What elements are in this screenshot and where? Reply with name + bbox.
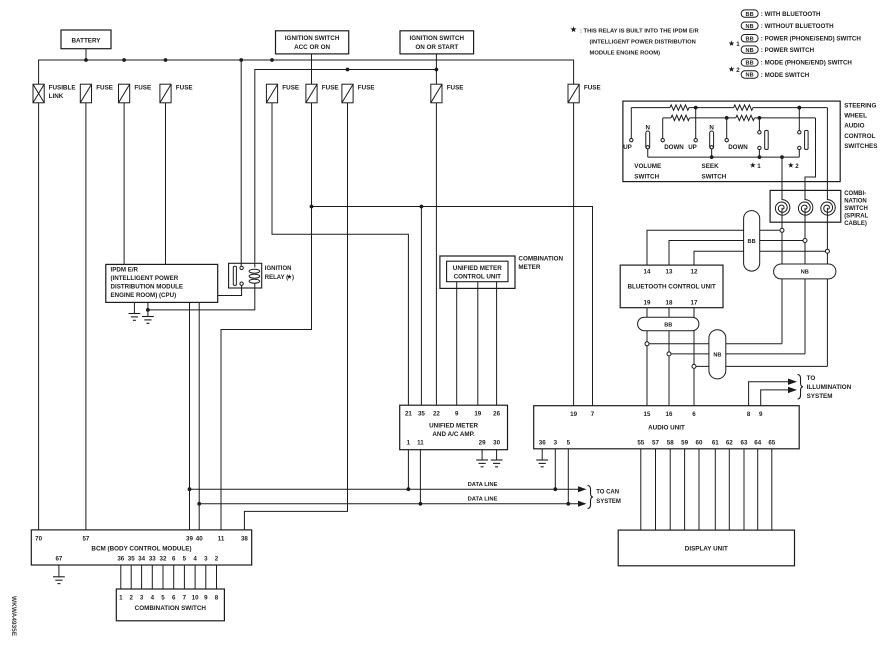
wire relay output to IPDM [218, 285, 242, 295]
legend row BB POWER (PHONE/SEND) SWITCH [741, 35, 758, 42]
wire meter pin30 ground [496, 450, 498, 460]
wire resistor line 1 [631, 107, 670, 109]
ground IPDM 2 [142, 316, 154, 318]
svg-text:58: 58 [667, 439, 674, 446]
svg-text:N: N [646, 124, 651, 131]
svg-text:38: 38 [241, 535, 248, 542]
svg-text:VOLUME: VOLUME [634, 163, 661, 170]
wire meter control to pin9 [456, 282, 458, 406]
svg-text:6: 6 [172, 594, 176, 601]
svg-text:ACC OR ON: ACC OR ON [294, 44, 330, 51]
relay contact top [240, 266, 243, 269]
svg-text:DISPLAY UNIT: DISPLAY UNIT [685, 546, 728, 553]
relay switch bar [233, 266, 236, 285]
star1 switch bar [765, 130, 769, 149]
wire bluetooth pin18 to audio pin16 [668, 308, 670, 406]
svg-text:ENGINE ROOM) (CPU): ENGINE ROOM) (CPU) [111, 292, 177, 299]
ground meter pin30 [491, 459, 503, 461]
svg-text:9: 9 [204, 594, 208, 601]
wire bluetooth pin14 [647, 230, 780, 265]
wires audio unit to display unit [640, 449, 642, 530]
junction data A meter1 [407, 487, 411, 491]
wire fuse7 to BCM pin38 [244, 103, 347, 530]
IPDM E/R box [106, 264, 218, 302]
spiral cable coil 2 [798, 200, 813, 216]
wire volume up drop [630, 108, 632, 139]
svg-text:3: 3 [140, 594, 144, 601]
svg-text:3: 3 [554, 439, 558, 446]
wire spiral2 down [804, 208, 806, 354]
arrow illumination 2 [788, 387, 797, 393]
fuse F3 [119, 84, 130, 103]
wire IPDM ground 2 [147, 302, 149, 316]
wire fuse6 to BCM pin11 [221, 103, 312, 530]
arrow data line A [578, 486, 587, 492]
junction rail star1 [758, 155, 762, 159]
junction rail spiral1 [780, 155, 784, 159]
legend row NB POWER SWITCH [741, 46, 758, 53]
svg-text:FUSE: FUSE [282, 85, 299, 92]
star2 switch upper contact [798, 108, 800, 131]
legend row NB WITHOUT BLUETOOTH [741, 22, 758, 29]
label star1 [750, 162, 756, 167]
connector circle spiral1/BB [780, 228, 784, 232]
junction data B meter11 [419, 502, 423, 506]
wire volume down drop [662, 118, 664, 139]
svg-text:19: 19 [474, 411, 481, 418]
svg-text:: POWER (PHONE/SEND) SWITCH: : POWER (PHONE/SEND) SWITCH [761, 36, 862, 43]
svg-text:12: 12 [691, 269, 698, 276]
svg-text:61: 61 [712, 439, 719, 446]
svg-text:35: 35 [128, 555, 135, 562]
wire relay contact feed [240, 60, 242, 266]
svg-text:1: 1 [119, 594, 123, 601]
connector circle NB spiral3 [692, 364, 696, 368]
junction fuse6 branch [310, 205, 314, 209]
svg-text:4: 4 [151, 594, 155, 601]
svg-text:19: 19 [644, 299, 651, 306]
svg-text:NATION: NATION [844, 198, 867, 204]
connector circle spiral3/BB [825, 249, 829, 253]
ignition relay box [229, 263, 262, 288]
wire fuse3 to IPDM [123, 103, 125, 265]
fuse F5 [266, 84, 277, 103]
svg-text:16: 16 [666, 411, 673, 418]
svg-text:FUSE: FUSE [584, 85, 601, 92]
fuse F8 [431, 84, 442, 103]
connector circle NB spiral1 [645, 342, 649, 346]
legend row BB WITH BLUETOOTH [741, 10, 758, 17]
display unit box [618, 530, 794, 566]
relay coil [254, 263, 256, 267]
svg-text:9: 9 [759, 411, 763, 418]
svg-text:BB: BB [746, 12, 754, 18]
wire meter pin29 ground [481, 450, 483, 460]
svg-text:DOWN: DOWN [728, 144, 748, 151]
svg-text:15: 15 [644, 411, 651, 418]
BB pill vertical [744, 211, 760, 272]
junction data A bcm39 [188, 487, 192, 491]
junction data A audio3 [553, 487, 557, 491]
svg-text:7: 7 [591, 411, 595, 418]
connector circle NB spiral2 [667, 352, 671, 356]
wire rail to spiral1 [781, 157, 783, 200]
svg-text:FUSE: FUSE [176, 85, 193, 92]
svg-text:65: 65 [768, 439, 775, 446]
svg-text:IPDM E/R: IPDM E/R [111, 267, 139, 274]
audio unit box [534, 406, 800, 449]
svg-text:IGNITION SWITCH: IGNITION SWITCH [285, 35, 340, 42]
legend star 2 marker [729, 66, 735, 71]
combination meter outer box [440, 256, 515, 288]
svg-text:60: 60 [696, 439, 703, 446]
svg-text:BB: BB [664, 322, 672, 328]
wire bluetooth pin13 [669, 241, 803, 266]
svg-text:10: 10 [192, 594, 199, 601]
svg-text:MODULE ENGINE ROOM): MODULE ENGINE ROOM) [590, 51, 661, 57]
svg-text:55: 55 [637, 439, 644, 446]
combination switch box [116, 589, 224, 621]
unified meter and A/C amp box [400, 405, 508, 450]
wires BCM to combination switch [120, 565, 122, 589]
svg-text:SWITCHES: SWITCHES [844, 143, 877, 150]
svg-text:COMBINATION: COMBINATION [518, 256, 563, 263]
svg-text:59: 59 [681, 439, 688, 446]
wire seek up drop [695, 108, 697, 139]
svg-text:CONTROL UNIT: CONTROL UNIT [454, 274, 502, 281]
svg-text:14: 14 [644, 269, 651, 276]
wire fusible link to BCM pin70 [38, 103, 40, 530]
contact volume UP [630, 139, 633, 142]
BCM body control module box [31, 530, 251, 565]
resistor R2 [734, 105, 753, 110]
NB pill vertical [709, 330, 726, 379]
svg-text:NB: NB [746, 73, 754, 79]
wire seek switch to rail [711, 149, 713, 157]
fuse F7 [342, 84, 353, 103]
svg-text:40: 40 [196, 535, 203, 542]
svg-text:FUSE: FUSE [134, 85, 151, 92]
svg-text:SYSTEM: SYSTEM [596, 499, 621, 505]
junction seek down tap [725, 116, 729, 120]
svg-text:FUSE: FUSE [96, 85, 113, 92]
svg-text:7: 7 [183, 594, 187, 601]
svg-text:30: 30 [493, 440, 500, 447]
spiral cable coil 1 [775, 200, 790, 216]
svg-text:UP: UP [688, 144, 697, 151]
contact seek DOWN [725, 139, 728, 142]
junction line1 star2 [797, 106, 801, 110]
brace to CAN system [588, 486, 594, 509]
unified meter control unit box [447, 261, 508, 282]
svg-text:2: 2 [215, 555, 219, 562]
svg-text:11: 11 [218, 535, 225, 542]
contact seek UP [694, 139, 697, 142]
wire audio pin3 to data line A [554, 449, 556, 489]
wire bluetooth pin17 to audio pin6 [693, 308, 695, 406]
svg-text:FUSE: FUSE [322, 85, 339, 92]
svg-text:: WITH BLUETOOTH: : WITH BLUETOOTH [761, 11, 821, 18]
svg-text:4: 4 [193, 555, 197, 562]
svg-text:FUSE: FUSE [358, 85, 375, 92]
svg-text:5: 5 [567, 439, 571, 446]
junction battery bus relay feed [239, 58, 243, 62]
svg-text:70: 70 [35, 535, 42, 542]
star1 switch lower contact [758, 146, 761, 149]
wire spiral1 joins audio15 [649, 343, 782, 345]
svg-text:CABLE): CABLE) [844, 221, 867, 227]
junction battery bus fuse4 [164, 58, 168, 62]
svg-text:DATA LINE: DATA LINE [468, 482, 498, 488]
svg-text:FUSIBLE: FUSIBLE [49, 85, 76, 92]
svg-text:METER: METER [518, 264, 540, 271]
junction data B bcm40 [197, 502, 201, 506]
svg-text:: POWER SWITCH: : POWER SWITCH [761, 47, 815, 54]
svg-text:36: 36 [539, 439, 546, 446]
svg-text:COMBI-: COMBI- [844, 191, 866, 197]
svg-text:32: 32 [160, 555, 167, 562]
junction ON/START bus fuse7 [346, 68, 350, 72]
svg-text:2: 2 [795, 163, 799, 170]
svg-text:21: 21 [405, 411, 412, 418]
battery B1 [61, 30, 111, 49]
wire branch down to meter pin35 [420, 207, 422, 406]
legend row NB MODE SWITCH [741, 71, 758, 78]
svg-text:63: 63 [741, 439, 748, 446]
svg-text:36: 36 [117, 555, 124, 562]
junction branch meter pin35 [420, 205, 424, 209]
junction ON/START bus at switch [435, 68, 439, 72]
svg-text:BCM (BODY CONTROL MODULE): BCM (BODY CONTROL MODULE) [91, 546, 191, 553]
svg-text:1: 1 [757, 163, 761, 170]
wire data line B [199, 503, 578, 505]
svg-text:AUDIO: AUDIO [844, 123, 864, 130]
wire meter control to pin19 [477, 282, 479, 406]
svg-text:ILLUMINATION: ILLUMINATION [807, 384, 852, 391]
wire ON/START switch down [435, 54, 437, 84]
svg-text:FUSE: FUSE [447, 85, 464, 92]
svg-text:1: 1 [736, 41, 740, 48]
svg-text:TO: TO [807, 375, 816, 382]
wire fuse8 to meter pin22 [435, 103, 437, 405]
wire meter control to pin26 [496, 282, 498, 406]
svg-text:67: 67 [55, 555, 62, 562]
svg-text:SYSTEM: SYSTEM [807, 393, 833, 400]
ground BCM pin67 [53, 576, 65, 578]
svg-text:: MODE SWITCH: : MODE SWITCH [761, 72, 810, 79]
svg-text:COMBINATION SWITCH: COMBINATION SWITCH [135, 605, 207, 612]
resistor R4 [736, 115, 755, 120]
wire fuse2 to BCM pin57 [85, 103, 87, 530]
svg-text:22: 22 [433, 411, 440, 418]
svg-text:IGNITION: IGNITION [265, 266, 292, 272]
wire audio pin8 to illumination [749, 382, 788, 406]
ignition switch ON OR START box [400, 31, 474, 54]
svg-text:62: 62 [726, 439, 733, 446]
wire meter pin11 to data line B [419, 450, 421, 504]
wire seek down drop [726, 118, 728, 139]
wire bluetooth pin19 to audio pin15 [646, 308, 648, 406]
svg-text:: THIS RELAY IS BUILT INTO THE: : THIS RELAY IS BUILT INTO THE IPDM E/R [580, 28, 699, 34]
svg-text:RELAY (: RELAY ( [265, 275, 288, 281]
svg-text:57: 57 [82, 535, 89, 542]
svg-text:9: 9 [455, 411, 459, 418]
svg-text:6: 6 [692, 411, 696, 418]
wire spiral3 down [826, 208, 828, 367]
svg-text:64: 64 [754, 439, 761, 446]
combination switch spiral cable box [770, 190, 841, 222]
svg-text:DISTRIBUTION MODULE: DISTRIBUTION MODULE [111, 284, 184, 291]
connector circle spiral2/BB [803, 239, 807, 243]
svg-text:SWITCH: SWITCH [702, 173, 727, 180]
svg-text:N: N [709, 124, 714, 131]
wire data line A [190, 488, 579, 490]
star1 switch upper contact [758, 118, 760, 131]
label star2 [788, 162, 794, 167]
svg-text:57: 57 [652, 439, 659, 446]
BB pill horizontal lower [638, 317, 699, 331]
svg-text:WKWA4935E: WKWA4935E [10, 596, 17, 637]
svg-text:SWITCH: SWITCH [634, 173, 659, 180]
star2 switch lower contact [798, 146, 801, 149]
svg-text:AND A/C AMP.: AND A/C AMP. [432, 431, 475, 438]
fuse F2 [80, 84, 91, 103]
wire IPDM to BCM pin40 [198, 302, 200, 530]
steering wheel audio control switches box [623, 101, 840, 182]
svg-text:TO CAN: TO CAN [596, 490, 619, 496]
svg-text:29: 29 [479, 440, 486, 447]
wire ON/START branch bus [255, 70, 437, 263]
svg-text:AUDIO UNIT: AUDIO UNIT [648, 425, 685, 432]
svg-text:IGNITION SWITCH: IGNITION SWITCH [410, 35, 465, 42]
svg-text:SEEK: SEEK [702, 163, 720, 170]
svg-text:6: 6 [172, 555, 176, 562]
svg-text:5: 5 [161, 594, 165, 601]
svg-text:3: 3 [204, 555, 208, 562]
wire ACC branch to meter35 and audio7 [312, 207, 593, 406]
svg-text:5: 5 [183, 555, 187, 562]
svg-text:NB: NB [801, 270, 809, 276]
ground IPDM 1 [129, 313, 141, 315]
svg-text:: MODE (PHONE/END) SWITCH: : MODE (PHONE/END) SWITCH [761, 60, 853, 67]
spiral cable coil 3 [821, 200, 836, 216]
svg-text:WHEEL: WHEEL [844, 113, 867, 120]
fuse F9 [568, 84, 579, 103]
ground meter pin29 [476, 459, 488, 461]
wire resistor line 2 [663, 117, 671, 119]
contact volume DOWN [661, 139, 664, 142]
wire audio pin36 ground [541, 449, 543, 460]
arrow data line B [578, 501, 587, 507]
svg-text:35: 35 [418, 411, 425, 418]
arrow illumination 1 [788, 379, 797, 385]
svg-text:: WITHOUT BLUETOOTH: : WITHOUT BLUETOOTH [761, 23, 834, 30]
svg-text:(SPIRAL: (SPIRAL [844, 214, 868, 220]
seek switch N capsule [710, 131, 714, 149]
wire line1 to spiral3 [826, 108, 828, 200]
wire IPDM ground 1 [133, 302, 135, 313]
junction battery bus fuse5 [270, 58, 274, 62]
wire spiral1 down [781, 208, 783, 344]
fuse F6 [306, 84, 317, 103]
svg-text:NB: NB [746, 48, 754, 54]
junction rail seek [710, 155, 714, 159]
svg-text:ON OR START: ON OR START [415, 44, 458, 51]
svg-text:2: 2 [129, 594, 133, 601]
svg-text:BB: BB [748, 239, 756, 245]
svg-text:UNIFIED METER: UNIFIED METER [429, 422, 478, 429]
svg-text:UP: UP [623, 144, 632, 151]
svg-text:DOWN: DOWN [664, 144, 684, 151]
wire ACC switch to fuse6 [311, 54, 313, 84]
svg-text:SWITCH: SWITCH [844, 206, 868, 212]
junction seek up tap [694, 106, 698, 110]
fuse F4 [160, 84, 171, 103]
volume switch N capsule [646, 131, 650, 149]
resistor R1 [670, 105, 689, 110]
wire battery to bus [85, 49, 87, 60]
wire bluetooth pin12 [694, 251, 825, 265]
bluetooth control unit box [620, 265, 723, 308]
brace illumination [798, 375, 804, 400]
svg-text:CONTROL: CONTROL [844, 133, 875, 140]
svg-text:39: 39 [186, 535, 193, 542]
svg-text:2: 2 [736, 67, 740, 74]
ignition switch ACC OR ON box [276, 31, 349, 54]
svg-text:11: 11 [417, 440, 424, 447]
star2 switch bar [805, 130, 809, 149]
wire line2 to spiral2 [805, 118, 816, 200]
svg-text:34: 34 [138, 555, 145, 562]
wire BCM pin67 ground [58, 565, 60, 577]
wire audio pin9 to illumination [761, 390, 788, 406]
svg-text:17: 17 [691, 299, 698, 306]
svg-text:8: 8 [215, 594, 219, 601]
svg-text:19: 19 [570, 411, 577, 418]
wire fuse4 to IPDM [165, 103, 167, 265]
svg-text:(INTELLIGENT POWER DISTRIBUTIO: (INTELLIGENT POWER DISTRIBUTION [590, 39, 696, 45]
wire IPDM to BCM pin39 [189, 302, 191, 530]
legend row BB MODE (PHONE/END) SWITCH [741, 59, 758, 66]
wire volume switch to rail [647, 149, 649, 157]
junction data B audio5 [566, 502, 570, 506]
svg-text:): ) [292, 275, 294, 281]
wire switch common rail [648, 156, 800, 158]
svg-text:LINK: LINK [49, 93, 64, 100]
svg-text:26: 26 [493, 411, 500, 418]
svg-text:NB: NB [746, 24, 754, 30]
svg-text:18: 18 [666, 299, 673, 306]
resistor R3 [671, 115, 690, 120]
svg-text:13: 13 [666, 269, 673, 276]
junction relay coil ground [146, 308, 150, 312]
svg-text:UNIFIED METER: UNIFIED METER [453, 265, 502, 272]
svg-text:BB: BB [746, 61, 754, 67]
relay contact bottom [240, 282, 243, 285]
legend star 1 marker [729, 41, 735, 46]
wire main battery bus [39, 60, 574, 84]
note star relay [570, 26, 576, 32]
NB pill horizontal upper [774, 264, 836, 279]
wire fuse9 to audio pin19 [573, 103, 575, 406]
svg-text:NB: NB [713, 353, 721, 359]
svg-text:STEERING: STEERING [844, 102, 876, 109]
svg-text:(INTELLIGENT POWER: (INTELLIGENT POWER [111, 275, 179, 282]
fusible link F1 [33, 84, 44, 103]
wire spiral2 joins audio16 [671, 353, 805, 355]
svg-text:BB: BB [746, 36, 754, 42]
wire relay coil to ground [148, 288, 255, 310]
